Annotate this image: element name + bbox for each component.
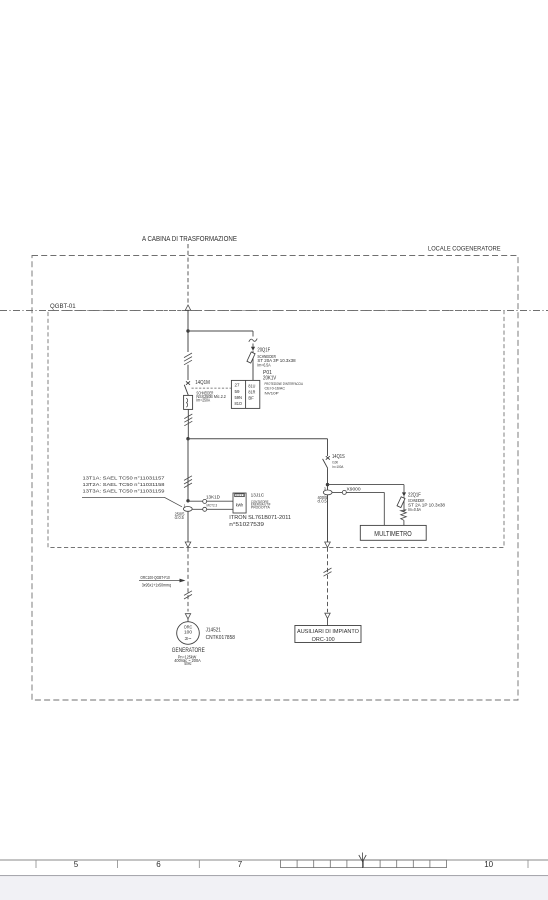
generator G1 name labels: [172, 647, 205, 666]
switch 14Q1S labels: [332, 454, 345, 469]
svg-text:14Q1M: 14Q1M: [195, 380, 210, 386]
label CT2 ratio: [318, 495, 328, 503]
svg-text:X9000: X9000: [347, 486, 362, 491]
breaker 14Q1M symbol: [184, 365, 193, 439]
svg-text:A CABINA DI TRASFORMAZIONE: A CABINA DI TRASFORMAZIONE: [142, 236, 237, 243]
wire incoming from cabina (dashed drop): [187, 244, 189, 305]
wire main bus vertical (top section): [187, 311, 189, 353]
break symbol on main bus (above 14Q1M): [184, 353, 192, 365]
boundary box LOCALE COGENERATORE (outer dashed): [32, 256, 518, 701]
fuse 22Q1F labels: [408, 492, 446, 511]
node connector MCT2.3 circle: [203, 507, 207, 511]
wire branch to fuse 22Q1F: [328, 484, 405, 486]
svg-text:13J1C: 13J1C: [251, 492, 265, 498]
svg-text:10: 10: [484, 860, 493, 869]
arrow into generator: [185, 614, 190, 619]
svg-text:13T3A: SAEL TC50 n°11031159: 13T3A: SAEL TC50 n°11031159: [83, 489, 165, 495]
leader line from CT list to CT1: [82, 497, 182, 506]
break symbol on main bus (above CT): [184, 476, 192, 488]
svg-text:BF: BF: [248, 396, 254, 401]
svg-text:cl.0.5: cl.0.5: [175, 515, 185, 520]
wire CT2 down to QGBT exit: [327, 495, 329, 543]
footer separator line: [0, 875, 548, 877]
fuse 20Q1F labels: [257, 348, 296, 368]
svg-text:20Q1F: 20Q1F: [257, 348, 270, 354]
wire meter tap lower: [192, 508, 233, 510]
svg-text:QGBT-01: QGBT-01: [50, 303, 76, 310]
svg-text:LOCALE COGENERATORE: LOCALE COGENERATORE: [428, 245, 501, 252]
fold mark: [359, 853, 366, 869]
generator G1 inner labels: [184, 624, 193, 640]
scale cell strip: [281, 860, 447, 868]
node exit arrow generator feeder: [185, 542, 191, 547]
svg-text:ORC100-QGBT-F10: ORC100-QGBT-F10: [140, 575, 170, 580]
svg-text:Im=6.5A: Im=6.5A: [257, 362, 270, 367]
CT 13T1A symbol (CT1): [183, 507, 192, 512]
svg-text:6: 6: [156, 860, 161, 869]
node junction J3 (metering tap): [186, 499, 189, 502]
svg-text:In=100A: In=100A: [332, 464, 343, 469]
svg-text:13T1A: SAEL TC50 n°11031157: 13T1A: SAEL TC50 n°11031157: [83, 476, 165, 482]
relay P01 labels: [263, 370, 303, 395]
svg-text:50Hz: 50Hz: [184, 661, 191, 666]
svg-text:AUSILIARI DI IMPIANTO: AUSILIARI DI IMPIANTO: [297, 629, 359, 635]
svg-text:MCT2.3: MCT2.3: [207, 503, 218, 507]
svg-text:13T2A: SAEL TC50 n°11031158: 13T2A: SAEL TC50 n°11031158: [83, 482, 165, 488]
wire into multimetro: [403, 520, 405, 525]
svg-text:ITRON SL761B071-2011: ITRON SL761B071-2011: [229, 515, 291, 521]
node connector 13K1D circle: [203, 499, 207, 503]
svg-text:81O: 81O: [235, 401, 243, 406]
svg-text:3: 3: [324, 487, 326, 491]
wire generator feeder (dashed below QGBT): [187, 548, 189, 612]
svg-text:PRODOTTA: PRODOTTA: [251, 506, 270, 510]
svg-text:CNTK017858: CNTK017858: [206, 635, 235, 641]
svg-text:NV10P: NV10P: [265, 390, 280, 395]
node junction J1: [186, 329, 189, 332]
wire squiggle on fuse drop: [252, 331, 254, 337]
svg-text:27: 27: [235, 383, 241, 388]
ruler numbers: [74, 860, 494, 869]
node incoming arrow into QGBT-01: [185, 305, 191, 310]
svg-text:cl.0.5: cl.0.5: [318, 499, 328, 504]
switch 14Q1S symbol: [323, 439, 330, 490]
svg-text:ORC-100: ORC-100: [312, 637, 335, 643]
auxiliary box labels: [297, 629, 359, 643]
wire main bus vertical (middle): [187, 439, 189, 501]
break symbol on main bus (below 14Q1M): [184, 414, 192, 426]
wire CT2 to X9000: [332, 491, 384, 493]
relay P01 box: [231, 380, 259, 408]
meter 13J1C labels: [229, 492, 291, 528]
breaker 14Q1M labels: [195, 380, 226, 402]
svg-text:3x95x1+1x50mmq: 3x95x1+1x50mmq: [142, 583, 172, 588]
ruler ticks: [36, 860, 528, 868]
auxiliary loads box: [295, 626, 361, 643]
svg-text:MULTIMETRO: MULTIMETRO: [374, 529, 412, 538]
break squiggle below fuse 22Q1F: [401, 510, 407, 521]
arrow into auxiliary box: [325, 613, 330, 618]
node junction J4: [326, 483, 329, 486]
meter 13J1C box: [233, 493, 246, 513]
wire branch to interface protection fuse: [188, 330, 253, 332]
CT nameplate list 13T1A/13T2A/13T3A: [83, 476, 165, 495]
meter display marks: [236, 494, 243, 496]
panel box QGBT-01 (inner dashed): [48, 311, 504, 548]
cable callout ORC100-QGBT arrow: [139, 580, 182, 582]
CT 23T1A symbol (CT2): [323, 490, 332, 495]
svg-text:5: 5: [74, 860, 79, 869]
wire main bus vertical (to QGBT exit): [187, 511, 189, 542]
wire meter tap upper: [188, 500, 233, 502]
svg-text:1: 1: [184, 504, 186, 508]
node junction J2: [186, 437, 189, 440]
svg-text:81R: 81R: [248, 390, 255, 395]
label CT1 ratio: [175, 511, 185, 519]
wire branch to 14Q1S: [188, 438, 328, 440]
break symbol on auxiliary feeder: [324, 568, 332, 576]
svg-text:59N: 59N: [235, 395, 243, 400]
svg-text:81U: 81U: [248, 383, 255, 388]
node connector X9000: [342, 490, 346, 494]
wire fuse to relay P01: [252, 363, 254, 380]
wire auxiliary feeder (dashed below QGBT): [327, 548, 329, 613]
wire X9000 down to multimetro: [383, 492, 385, 525]
svg-text:7: 7: [238, 860, 243, 869]
svg-text:GENERATORE: GENERATORE: [172, 647, 205, 654]
node exit arrow auxiliary feeder: [325, 542, 331, 547]
title block ruler line: [0, 859, 548, 861]
svg-text:kWh: kWh: [236, 502, 244, 507]
svg-text:n°51027539: n°51027539: [229, 522, 264, 528]
svg-text:3~: 3~: [185, 636, 193, 641]
svg-text:Im=0.5A: Im=0.5A: [408, 507, 421, 512]
multimetro box: [360, 525, 426, 540]
boundary dash-dot line (cabina/QGBT separation): [0, 310, 548, 312]
generator G1 serial labels: [206, 627, 235, 641]
cable callout labels: [140, 575, 171, 588]
wire fuse 22Q1F drop with arrow: [403, 485, 405, 493]
break symbol on generator feeder: [184, 591, 192, 599]
fuse 20Q1F symbol: [247, 351, 255, 381]
svg-text:Im=250A: Im=250A: [196, 397, 210, 402]
wire fuse drop arrow: [252, 344, 254, 348]
wire dashed link breaker to relay P01: [192, 387, 232, 389]
svg-text:59: 59: [235, 389, 241, 394]
svg-text:J14521: J14521: [206, 627, 221, 633]
generator G1 circle: [177, 622, 200, 645]
fuse 22Q1F symbol: [397, 496, 405, 511]
svg-text:13K1D: 13K1D: [206, 494, 220, 500]
relay P01 function labels: [235, 383, 256, 406]
footer band: [0, 876, 548, 900]
svg-text:100: 100: [184, 630, 193, 635]
